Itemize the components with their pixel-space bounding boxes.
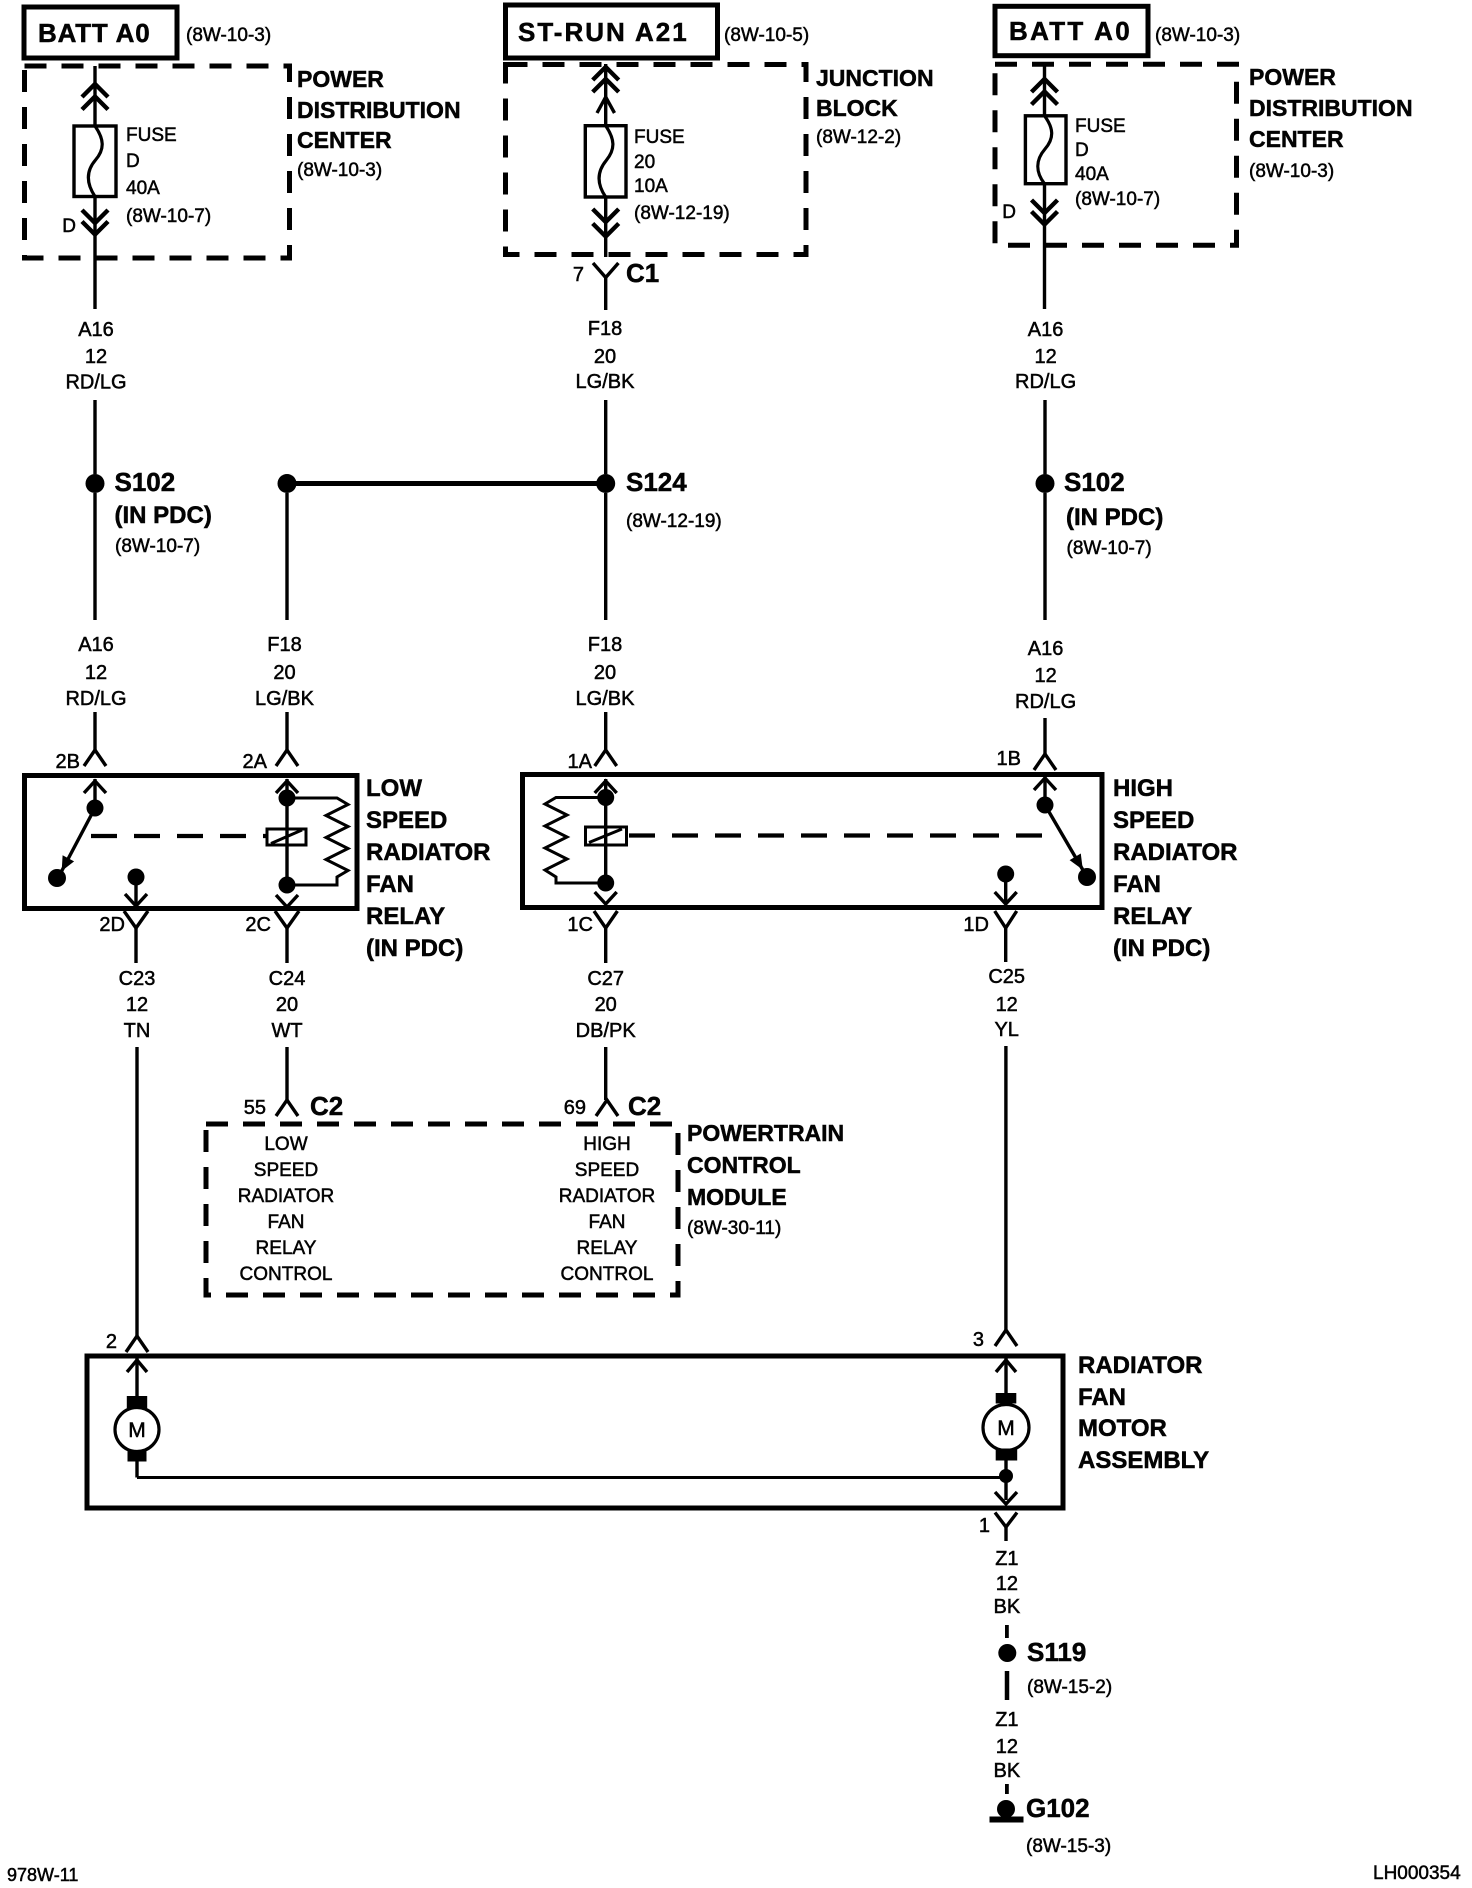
label HIGH SPEED RADIATOR FAN RELAY (IN PDC) bbox=[1113, 775, 1237, 962]
svg-text:BATT A0: BATT A0 bbox=[38, 18, 150, 48]
svg-text:CENTER: CENTER bbox=[1249, 126, 1344, 152]
svg-text:SPEED: SPEED bbox=[1113, 807, 1194, 834]
svg-text:C25: C25 bbox=[988, 966, 1025, 988]
label S102 (IN PDC) (8W-10-7) right bbox=[1064, 467, 1163, 559]
arrow chevron out of pin 2D bbox=[125, 894, 147, 906]
ground G102 symbol bbox=[990, 1800, 1024, 1823]
wire pin 1C to label bbox=[604, 943, 607, 963]
svg-text:BK: BK bbox=[994, 1596, 1021, 1618]
svg-text:RELAY: RELAY bbox=[1113, 903, 1192, 930]
wire label F18 20 LG/BK (2A branch) bbox=[255, 634, 315, 710]
radiator fan motor assembly box bbox=[87, 1356, 1063, 1508]
wire label A16 12 RD/LG (left, lower) bbox=[65, 634, 126, 710]
svg-text:12: 12 bbox=[996, 1573, 1018, 1595]
svg-text:12: 12 bbox=[85, 346, 107, 368]
svg-text:Z1: Z1 bbox=[995, 1709, 1018, 1731]
svg-text:(IN PDC): (IN PDC) bbox=[1113, 935, 1210, 962]
pin label 1 bbox=[979, 1515, 990, 1537]
PCM input label LOW SPEED RADIATOR FAN RELAY CONTROL bbox=[238, 1134, 334, 1285]
pin label 2C bbox=[245, 914, 271, 936]
arrow chevron into pin 2A inside relay bbox=[276, 781, 298, 793]
wire pin 2B to common contact bbox=[93, 779, 96, 808]
connector half (female) at pin 2D bbox=[124, 911, 148, 943]
wire motor M1 return bbox=[135, 1462, 138, 1478]
connector half (female) at pin 1C bbox=[594, 911, 617, 943]
motor M1 brush (top) bbox=[127, 1396, 147, 1408]
svg-text:HIGH: HIGH bbox=[583, 1134, 631, 1155]
wire pin 2D to label bbox=[134, 943, 137, 963]
svg-text:7: 7 bbox=[573, 264, 584, 286]
svg-text:20: 20 bbox=[595, 994, 617, 1016]
svg-text:(8W-10-7): (8W-10-7) bbox=[126, 206, 211, 227]
svg-text:RADIATOR: RADIATOR bbox=[366, 839, 490, 866]
label S119 (8W-15-2) bbox=[1027, 1637, 1112, 1698]
relay K1 LOW SPEED RADIATOR FAN RELAY box bbox=[25, 776, 358, 909]
svg-text:(8W-10-5): (8W-10-5) bbox=[724, 25, 809, 46]
svg-text:RD/LG: RD/LG bbox=[1015, 371, 1076, 393]
svg-text:(8W-10-3): (8W-10-3) bbox=[1249, 161, 1334, 182]
svg-text:C27: C27 bbox=[587, 968, 624, 990]
node coil top (pin 1A) bbox=[597, 789, 614, 806]
wire S119 to Z1 lower segment bbox=[1005, 1671, 1010, 1700]
svg-text:RD/LG: RD/LG bbox=[65, 372, 126, 394]
svg-text:C23: C23 bbox=[119, 968, 156, 990]
arrow chevron into pin 2B inside relay bbox=[84, 781, 106, 793]
pin label 1C bbox=[567, 914, 593, 936]
svg-text:(IN PDC): (IN PDC) bbox=[1066, 504, 1163, 531]
svg-text:40A: 40A bbox=[1075, 164, 1109, 185]
wire pin 1B to common contact bbox=[1043, 777, 1046, 805]
label JUNCTION BLOCK (8W-12-2) bbox=[816, 65, 934, 148]
node resting contact (NC) of relay K2 bbox=[1078, 868, 1096, 886]
value label FUSE D 40A (8W-10-7) right bbox=[1075, 116, 1160, 210]
svg-text:M: M bbox=[128, 1419, 146, 1442]
svg-text:1: 1 bbox=[979, 1515, 990, 1537]
connector name C1 bbox=[626, 258, 659, 288]
fuse-block connector BATT A0 (right) bbox=[995, 6, 1148, 55]
svg-text:LG/BK: LG/BK bbox=[576, 371, 636, 393]
svg-text:(8W-12-19): (8W-12-19) bbox=[634, 203, 730, 224]
label POWERTRAIN CONTROL MODULE (8W-30-11) bbox=[687, 1120, 844, 1239]
svg-text:1D: 1D bbox=[963, 914, 989, 936]
resistor across relay K2 coil bbox=[545, 798, 598, 884]
svg-text:2B: 2B bbox=[56, 751, 80, 773]
svg-text:20: 20 bbox=[634, 152, 655, 173]
wire pin 1D to label bbox=[1004, 943, 1007, 962]
wire Z1 into ground G102 bbox=[1005, 1784, 1009, 1794]
wire pin 2A through coil to pin 2C bbox=[285, 779, 288, 885]
svg-text:S124: S124 bbox=[626, 467, 687, 497]
svg-text:A16: A16 bbox=[1028, 319, 1064, 341]
svg-text:CONTROL: CONTROL bbox=[687, 1152, 801, 1178]
wire label C25 12 YL bbox=[988, 966, 1025, 1041]
wire A16 down to splice S102 (left) bbox=[93, 400, 96, 474]
wire into relay pin 2A bbox=[285, 712, 288, 750]
connector half (female) at pin 1D bbox=[995, 911, 1017, 943]
svg-text:POWER: POWER bbox=[1249, 64, 1336, 90]
svg-text:12: 12 bbox=[1034, 346, 1056, 368]
svg-text:SPEED: SPEED bbox=[254, 1160, 318, 1181]
node coil bottom (pin 1C) bbox=[597, 875, 614, 892]
wire label C23 12 TN bbox=[119, 968, 156, 1042]
svg-text:20: 20 bbox=[273, 662, 295, 684]
arrow head up at fuse 20 input bbox=[597, 97, 615, 113]
svg-text:D: D bbox=[126, 151, 140, 172]
connector half (male) at motor pin 3 bbox=[995, 1330, 1017, 1346]
svg-text:RADIATOR: RADIATOR bbox=[559, 1186, 655, 1207]
svg-text:F18: F18 bbox=[588, 318, 622, 340]
arrow chevron into motor pin 3 bbox=[996, 1360, 1016, 1372]
svg-text:LOW: LOW bbox=[264, 1134, 307, 1155]
svg-text:1C: 1C bbox=[567, 914, 593, 936]
junction block dashed box bbox=[506, 65, 807, 255]
svg-text:F18: F18 bbox=[588, 634, 622, 656]
reference (8W-10-3) for BATT A0 left bbox=[186, 25, 271, 46]
label RADIATOR FAN MOTOR ASSEMBLY bbox=[1078, 1352, 1209, 1474]
svg-text:LH000354: LH000354 bbox=[1373, 1863, 1461, 1884]
double chevron arrow up (left feed) bbox=[82, 84, 108, 110]
wire pin 2 to low speed motor bbox=[135, 1358, 138, 1396]
svg-text:(8W-10-7): (8W-10-7) bbox=[115, 536, 200, 557]
arrow chevron into motor pin 2 bbox=[127, 1360, 147, 1372]
drawing number LH000354 bbox=[1373, 1863, 1461, 1884]
switch arm (movable contact) of relay K2 bbox=[1045, 805, 1087, 877]
svg-text:(8W-10-3): (8W-10-3) bbox=[186, 25, 271, 46]
motor M1 (low speed fan motor) bbox=[115, 1408, 159, 1452]
splice junction node on S124 branch bbox=[278, 474, 297, 493]
connector name C2 (high speed) bbox=[628, 1091, 661, 1121]
svg-text:12: 12 bbox=[996, 994, 1018, 1016]
wire C1 down (middle) bbox=[604, 291, 607, 310]
svg-text:(8W-15-2): (8W-15-2) bbox=[1027, 1677, 1112, 1698]
connector half (female) at motor pin 1 bbox=[995, 1513, 1017, 1542]
node resting contact (NC) of relay K1 bbox=[48, 869, 66, 887]
node output contact pin 2D bbox=[128, 869, 145, 886]
svg-text:2D: 2D bbox=[99, 914, 125, 936]
double chevron arrow down (left fuse output) bbox=[82, 210, 108, 235]
svg-text:(8W-10-3): (8W-10-3) bbox=[297, 160, 382, 181]
svg-text:D: D bbox=[1002, 202, 1016, 223]
wire C27 to PCM connector C2 bbox=[604, 1047, 607, 1100]
svg-text:S102: S102 bbox=[1064, 467, 1125, 497]
pin label 1D bbox=[963, 914, 989, 936]
svg-text:SPEED: SPEED bbox=[575, 1160, 639, 1181]
svg-text:RELAY: RELAY bbox=[366, 903, 445, 930]
pin label 2D bbox=[99, 914, 125, 936]
svg-text:D: D bbox=[62, 216, 76, 237]
svg-text:CONTROL: CONTROL bbox=[561, 1264, 654, 1285]
connector half (male) at motor pin 2 bbox=[126, 1336, 148, 1352]
connector name C2 (low speed) bbox=[310, 1091, 343, 1121]
svg-text:WT: WT bbox=[271, 1020, 302, 1042]
mechanical link (dashed) between K1 armature and coil bbox=[91, 834, 266, 838]
svg-text:CENTER: CENTER bbox=[297, 127, 392, 153]
wire label Z1 12 BK (upper) bbox=[994, 1548, 1021, 1618]
wire into relay pin 2B bbox=[93, 712, 96, 750]
svg-text:POWER: POWER bbox=[297, 66, 384, 92]
wire label A16 12 RD/LG (left, upper) bbox=[65, 319, 126, 394]
wire label F18 20 LG/BK (middle, lower) bbox=[576, 634, 636, 710]
wire S124 branch down (to pin 2A) bbox=[285, 493, 288, 620]
svg-text:POWERTRAIN: POWERTRAIN bbox=[687, 1120, 844, 1146]
wire motor M2 to ground pin 1 bbox=[1004, 1461, 1007, 1501]
wire common return (horizontal) inside motor assembly bbox=[137, 1476, 1006, 1479]
svg-text:MOTOR: MOTOR bbox=[1078, 1415, 1167, 1442]
pin number 55 bbox=[244, 1097, 266, 1119]
motor M2 (high speed fan motor) bbox=[983, 1405, 1029, 1451]
svg-text:FAN: FAN bbox=[268, 1212, 305, 1233]
connector half (male) at relay pin 1A bbox=[595, 750, 617, 766]
wire label A16 12 RD/LG (right, upper) bbox=[1015, 319, 1076, 393]
sheet number 978W-11 bbox=[7, 1865, 78, 1885]
pin label D (right fuse output) bbox=[1002, 202, 1016, 223]
relay K1 coil bbox=[267, 829, 306, 845]
svg-text:FUSE: FUSE bbox=[1075, 116, 1126, 137]
svg-text:TN: TN bbox=[124, 1020, 151, 1042]
svg-text:FUSE: FUSE bbox=[126, 125, 177, 146]
svg-text:FUSE: FUSE bbox=[634, 127, 685, 148]
relay K2 coil bbox=[586, 827, 627, 845]
arrow chevron out of motor pin 1 bbox=[995, 1492, 1017, 1504]
svg-text:FAN: FAN bbox=[366, 871, 414, 898]
wire fuse D output (right) bbox=[1043, 184, 1046, 309]
switch arm (movable contact) of relay K1 bbox=[58, 808, 95, 878]
wire label Z1 12 BK (lower) bbox=[994, 1709, 1021, 1782]
wire below S102 (left) bbox=[93, 493, 96, 620]
svg-text:RADIATOR: RADIATOR bbox=[1113, 839, 1237, 866]
wire feed from ST-RUN into fuse 20 bbox=[604, 64, 607, 126]
connector C1 pin 7 (female half) below junction block bbox=[593, 263, 618, 291]
splice S102 node (right) bbox=[1036, 474, 1055, 493]
svg-text:DISTRIBUTION: DISTRIBUTION bbox=[297, 97, 461, 123]
wire into relay pin 1A bbox=[604, 712, 607, 750]
wire Z1 into splice S119 bbox=[1005, 1625, 1009, 1638]
svg-text:RD/LG: RD/LG bbox=[1015, 691, 1076, 713]
svg-text:LG/BK: LG/BK bbox=[576, 688, 636, 710]
svg-text:(8W-10-7): (8W-10-7) bbox=[1075, 189, 1160, 210]
value label FUSE 20 10A (8W-12-19) bbox=[634, 127, 730, 224]
powertrain control module PCM dashed box bbox=[206, 1124, 678, 1295]
svg-text:BK: BK bbox=[994, 1760, 1021, 1782]
label S124 (8W-12-19) bbox=[626, 467, 722, 532]
svg-text:C2: C2 bbox=[310, 1091, 343, 1121]
double chevron arrow up (middle feed) bbox=[593, 67, 619, 92]
svg-text:LOW: LOW bbox=[366, 775, 422, 802]
svg-text:Z1: Z1 bbox=[995, 1548, 1018, 1570]
svg-text:RELAY: RELAY bbox=[577, 1238, 638, 1259]
node output contact pin 1D bbox=[997, 866, 1014, 883]
svg-text:20: 20 bbox=[594, 662, 616, 684]
svg-text:1B: 1B bbox=[997, 748, 1021, 770]
pin label 3 bbox=[973, 1329, 984, 1351]
svg-text:RELAY: RELAY bbox=[256, 1238, 317, 1259]
svg-text:2A: 2A bbox=[243, 751, 268, 773]
svg-text:12: 12 bbox=[85, 662, 107, 684]
svg-text:YL: YL bbox=[994, 1019, 1018, 1041]
svg-text:A16: A16 bbox=[78, 319, 114, 341]
junction node of return wires bbox=[999, 1469, 1013, 1483]
power distribution center dashed box (left) bbox=[25, 66, 290, 258]
relay K2 HIGH SPEED RADIATOR FAN RELAY box bbox=[523, 775, 1103, 908]
svg-text:3: 3 bbox=[973, 1329, 984, 1351]
svg-text:SPEED: SPEED bbox=[366, 807, 447, 834]
reference (8W-10-5) for ST-RUN A21 bbox=[724, 25, 809, 46]
svg-text:(IN PDC): (IN PDC) bbox=[366, 935, 463, 962]
svg-text:55: 55 bbox=[244, 1097, 266, 1119]
svg-text:ASSEMBLY: ASSEMBLY bbox=[1078, 1447, 1209, 1474]
wire fuse 20 output bbox=[604, 197, 607, 257]
svg-text:(8W-10-7): (8W-10-7) bbox=[1067, 538, 1152, 559]
wire label F18 20 LG/BK (middle, upper) bbox=[576, 318, 636, 393]
svg-text:HIGH: HIGH bbox=[1113, 775, 1173, 802]
svg-text:S102: S102 bbox=[115, 467, 176, 497]
fuse D 40A (right PDC) bbox=[1025, 116, 1066, 184]
mechanical link (dashed) between K2 coil and armature bbox=[629, 833, 1056, 837]
wire label A16 12 RD/LG (right, lower) bbox=[1015, 638, 1076, 713]
power distribution center dashed box (right) bbox=[995, 64, 1237, 245]
pin label 1B bbox=[997, 748, 1021, 770]
node common contact 1B bbox=[1037, 797, 1054, 814]
resistor across relay K1 coil bbox=[295, 798, 348, 885]
pin label 2A bbox=[243, 751, 268, 773]
svg-text:(IN PDC): (IN PDC) bbox=[115, 502, 212, 529]
pin number 69 bbox=[564, 1097, 586, 1119]
svg-text:ST-RUN A21: ST-RUN A21 bbox=[518, 17, 689, 47]
svg-text:12: 12 bbox=[996, 1736, 1018, 1758]
svg-text:A16: A16 bbox=[1028, 638, 1064, 660]
wire C25 long run to motor pin 3 bbox=[1004, 1046, 1007, 1330]
svg-text:(8W-15-3): (8W-15-3) bbox=[1026, 1836, 1111, 1857]
label POWER DISTRIBUTION CENTER (8W-10-3) left bbox=[297, 66, 461, 181]
svg-text:40A: 40A bbox=[126, 178, 160, 199]
svg-text:(8W-12-2): (8W-12-2) bbox=[816, 127, 901, 148]
svg-text:RADIATOR: RADIATOR bbox=[1078, 1352, 1202, 1379]
value label FUSE D 40A (8W-10-7) left bbox=[126, 125, 211, 227]
connector half (female) at pin 2C bbox=[275, 911, 299, 943]
svg-text:D: D bbox=[1075, 140, 1089, 161]
svg-text:2C: 2C bbox=[245, 914, 271, 936]
wire F18 down to splice S124 bbox=[604, 400, 607, 474]
connector C2 pin 69 (male half) at PCM bbox=[596, 1100, 618, 1116]
svg-text:FAN: FAN bbox=[589, 1212, 626, 1233]
pin label 2B bbox=[56, 751, 80, 773]
svg-text:C1: C1 bbox=[626, 258, 659, 288]
pin label 2 bbox=[106, 1331, 117, 1353]
svg-text:(8W-30-11): (8W-30-11) bbox=[687, 1218, 781, 1239]
node coil bottom (pin 2C) bbox=[279, 877, 296, 894]
connector C2 pin 55 (male half) at PCM bbox=[276, 1100, 298, 1116]
fuse D 40A (left PDC) bbox=[74, 126, 116, 197]
svg-text:DB/PK: DB/PK bbox=[576, 1020, 637, 1042]
reference (8W-10-3) for BATT A0 right bbox=[1155, 25, 1240, 46]
wire C24 to PCM connector C2 bbox=[285, 1047, 288, 1100]
fuse-block connector ST-RUN A21 (middle) bbox=[506, 5, 718, 58]
PCM input label HIGH SPEED RADIATOR FAN RELAY CONTROL bbox=[559, 1134, 655, 1285]
wire splice bus S124 (horizontal) bbox=[287, 481, 606, 486]
arrow chevron out of pin 1D bbox=[995, 892, 1017, 904]
svg-text:DISTRIBUTION: DISTRIBUTION bbox=[1249, 95, 1413, 121]
motor M2 brush (top) bbox=[996, 1393, 1017, 1404]
fuse-block connector BATT A0 (left) bbox=[24, 7, 177, 58]
svg-text:LG/BK: LG/BK bbox=[255, 688, 315, 710]
label S102 (IN PDC) (8W-10-7) left bbox=[115, 467, 212, 557]
svg-text:(8W-10-3): (8W-10-3) bbox=[1155, 25, 1240, 46]
svg-text:1A: 1A bbox=[568, 751, 593, 773]
wire below S124 (middle) bbox=[604, 493, 607, 620]
arrow chevron into pin 1A inside relay bbox=[595, 781, 617, 793]
svg-text:(8W-12-19): (8W-12-19) bbox=[626, 511, 722, 532]
svg-text:F18: F18 bbox=[267, 634, 301, 656]
connector half (male) at relay pin 2B bbox=[84, 750, 106, 766]
svg-text:JUNCTION: JUNCTION bbox=[816, 65, 934, 91]
arrow chevron out of pin 1C bbox=[595, 892, 617, 904]
svg-text:69: 69 bbox=[564, 1097, 586, 1119]
wire feed from BATT A0 into fuse D (left) bbox=[93, 66, 96, 127]
double chevron arrow down (right fuse output) bbox=[1032, 200, 1058, 225]
svg-text:2: 2 bbox=[106, 1331, 117, 1353]
svg-text:S119: S119 bbox=[1027, 1637, 1086, 1667]
svg-text:20: 20 bbox=[276, 994, 298, 1016]
svg-text:G102: G102 bbox=[1026, 1793, 1090, 1823]
svg-text:M: M bbox=[997, 1417, 1015, 1440]
wire below S102 (right) bbox=[1043, 493, 1046, 620]
label G102 (8W-15-3) bbox=[1026, 1793, 1111, 1857]
wire label C27 20 DB/PK bbox=[576, 968, 637, 1042]
wire A16 down to splice S102 (right) bbox=[1043, 400, 1046, 474]
svg-text:10A: 10A bbox=[634, 176, 668, 197]
wire feed from BATT A0 into fuse D (right) bbox=[1043, 64, 1046, 116]
splice S119 node bbox=[998, 1644, 1016, 1662]
wire pin 3 to high speed motor bbox=[1004, 1358, 1007, 1393]
svg-text:BATT A0: BATT A0 bbox=[1009, 16, 1132, 46]
svg-text:20: 20 bbox=[594, 346, 616, 368]
svg-text:12: 12 bbox=[126, 994, 148, 1016]
wire fuse D output (left) bbox=[93, 197, 96, 310]
double chevron arrow down (fuse 20 output) bbox=[593, 209, 619, 237]
svg-text:C24: C24 bbox=[269, 968, 306, 990]
wire label C24 20 WT bbox=[269, 968, 306, 1042]
svg-text:A16: A16 bbox=[78, 634, 114, 656]
motor M1 brush (bottom) bbox=[128, 1450, 147, 1462]
svg-text:FAN: FAN bbox=[1113, 871, 1161, 898]
double chevron arrow up (right feed) bbox=[1032, 79, 1058, 105]
connector half (male) at relay pin 2A bbox=[276, 750, 298, 766]
arrow chevron out of pin 2C bbox=[276, 895, 298, 907]
svg-text:RADIATOR: RADIATOR bbox=[238, 1186, 334, 1207]
wire pin 1D to case edge bbox=[1004, 874, 1007, 903]
pin label 1A bbox=[568, 751, 593, 773]
splice S102 node (left) bbox=[86, 474, 105, 493]
fuse 20 10A (junction block) bbox=[585, 126, 626, 197]
svg-text:MODULE: MODULE bbox=[687, 1184, 787, 1210]
wire C23 long run to motor pin 2 bbox=[135, 1047, 138, 1336]
svg-text:FAN: FAN bbox=[1078, 1384, 1126, 1411]
svg-text:12: 12 bbox=[1034, 665, 1056, 687]
splice S124 node bbox=[596, 474, 615, 493]
svg-text:C2: C2 bbox=[628, 1091, 661, 1121]
label POWER DISTRIBUTION CENTER (8W-10-3) right bbox=[1249, 64, 1413, 182]
label LOW SPEED RADIATOR FAN RELAY (IN PDC) bbox=[366, 775, 490, 962]
node common contact 2B bbox=[87, 800, 104, 817]
svg-text:BLOCK: BLOCK bbox=[816, 95, 898, 121]
node coil top (pin 2A) bbox=[279, 790, 296, 807]
svg-text:978W-11: 978W-11 bbox=[7, 1865, 78, 1885]
arrow chevron into pin 1B inside relay bbox=[1034, 778, 1056, 790]
pin label D (left fuse output) bbox=[62, 216, 76, 237]
motor M2 brush (bottom) bbox=[996, 1449, 1018, 1461]
wire pin 2D to case edge bbox=[134, 877, 137, 905]
svg-text:RD/LG: RD/LG bbox=[65, 688, 126, 710]
